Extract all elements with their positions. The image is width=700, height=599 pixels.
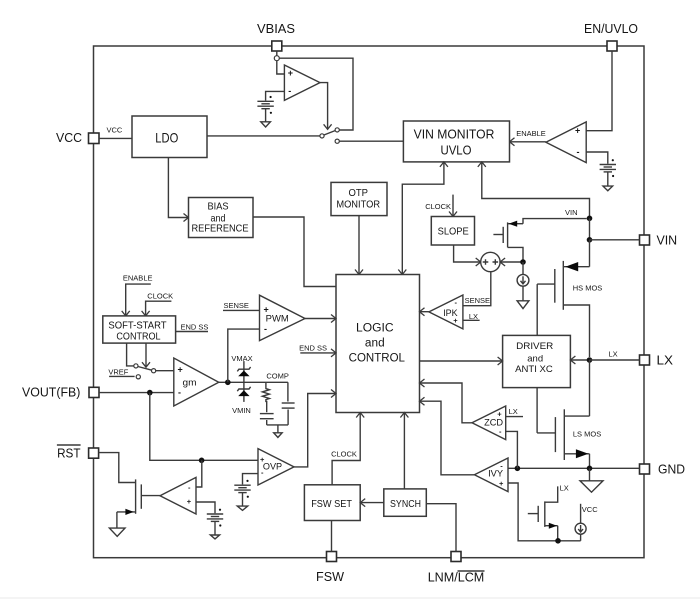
wire SENSE stub to PWM + input: [223, 301, 260, 310]
zener VMAX clamp: [231, 354, 252, 382]
block DRIVER and ANTI XC: [503, 335, 571, 387]
ground below Q5: [109, 528, 125, 536]
wire IPK output to LOGIC: [420, 308, 429, 316]
svg-text:+: +: [453, 316, 458, 325]
svg-text:and: and: [365, 337, 385, 349]
wire LDO to BIAS and REFERENCE: [168, 158, 188, 218]
comparator U3 (reset): [160, 477, 196, 514]
wire OTP MONITOR to LOGIC: [355, 216, 363, 275]
resistor R1 (compensation): [262, 382, 269, 412]
wire CLOCK from FSW SET to LOGIC: [331, 413, 364, 485]
comparator IPK: [429, 295, 463, 329]
svg-text:VREF: VREF: [108, 368, 128, 377]
svg-text:+: +: [178, 364, 183, 374]
svg-text:gm: gm: [183, 378, 197, 389]
wire SYNCH to LOGIC: [400, 413, 408, 489]
svg-text:END SS: END SS: [181, 323, 209, 332]
svg-text:SENSE: SENSE: [224, 301, 249, 310]
block SYNCH: [384, 489, 427, 516]
svg-text:LOGIC: LOGIC: [356, 323, 394, 335]
node gm output dot: [225, 380, 231, 386]
wire switch control arrow: [142, 343, 150, 367]
switch S1 (VBIAS/LDO changeover): [320, 128, 339, 143]
summing node (+ +): [481, 252, 500, 271]
svg-text:MONITOR: MONITOR: [336, 199, 380, 210]
wire DRIVER to LS MOS gate: [536, 388, 538, 433]
comparator IVY: [474, 458, 508, 492]
svg-text:LX: LX: [560, 484, 569, 493]
svg-text:SOFT-START: SOFT-START: [108, 320, 166, 331]
wire current sense into summing node: [500, 258, 523, 266]
ground below compensation: [274, 425, 282, 438]
wire VCC pin to LDO: [99, 137, 132, 139]
wire COMP node to PWM - input: [228, 329, 260, 382]
battery B3 (OVP reference): [234, 480, 250, 498]
wire B2 to ground: [607, 172, 609, 186]
svg-text:+: +: [260, 455, 265, 464]
wire U3 + input to reference: [196, 502, 215, 513]
svg-text:+: +: [499, 479, 504, 488]
wire LX to DRIVER (anti cross conduction sense): [570, 350, 617, 365]
svg-text:OTP: OTP: [348, 188, 368, 199]
svg-text:GND: GND: [658, 463, 685, 477]
wire IVY + input to sense node: [508, 483, 581, 541]
svg-text:ENABLE: ENABLE: [123, 274, 153, 283]
svg-text:+: +: [575, 126, 580, 136]
transistor Q4 (LX sense NMOS): [528, 484, 569, 541]
node FB dot: [147, 390, 153, 396]
wire VREF stub: [108, 368, 134, 377]
pin VOUT(FB): [22, 385, 99, 399]
chip outer border: [94, 46, 645, 558]
battery B1 (U1 reference): [257, 96, 273, 114]
svg-text:BIAS: BIAS: [208, 202, 229, 213]
svg-text:-: -: [288, 86, 291, 96]
capacitor C1 (compensation series): [260, 414, 274, 425]
current source CS2 (VCC bias): [575, 504, 598, 541]
pin FSW: [316, 552, 344, 585]
svg-text:VCC: VCC: [107, 126, 123, 135]
wire RST pin to Q5 drain: [99, 453, 136, 483]
wire END SS stub to LOGIC: [299, 344, 336, 357]
amplifier gm: [174, 358, 219, 406]
pin VBIAS: [257, 22, 295, 51]
svg-text:ENABLE: ENABLE: [516, 129, 546, 138]
battery B4 (U3 reference): [207, 509, 223, 527]
node Q4 source dot: [555, 538, 561, 544]
wire LOGIC to DRIVER: [420, 357, 503, 365]
zener VMIN clamp: [232, 382, 251, 415]
node LX dot: [587, 357, 593, 363]
comparator ZCD: [472, 406, 506, 440]
wire B3 to ground: [242, 493, 244, 507]
node FB sense dot: [199, 458, 205, 464]
svg-text:VIN: VIN: [565, 208, 578, 217]
svg-text:LNM/LCM: LNM/LCM: [428, 570, 485, 584]
svg-text:CLOCK: CLOCK: [147, 292, 173, 301]
wire SYNCH to FSW SET: [360, 499, 384, 507]
wire B4 to ground: [214, 521, 216, 535]
ground below B2: [603, 186, 613, 191]
svg-text:VBIAS: VBIAS: [257, 22, 295, 36]
wire gm output (COMP node): [219, 381, 288, 383]
svg-text:REFERENCE: REFERENCE: [192, 224, 249, 235]
pin EN/UVLO: [584, 22, 638, 51]
svg-text:VCC: VCC: [56, 131, 82, 145]
wire FSW pin to FSW SET: [331, 521, 333, 552]
wire PWM output to LOGIC: [305, 315, 336, 323]
wire ZCD output to LOGIC: [420, 379, 473, 423]
ground below CS1: [517, 301, 529, 309]
svg-text:VMIN: VMIN: [232, 406, 251, 415]
wire LX to LS MOS drain: [589, 360, 591, 416]
op-amp U1 (VBIAS buffer): [284, 65, 320, 100]
svg-text:LX: LX: [469, 312, 478, 321]
wire VIN net vertical: [589, 218, 591, 240]
node VBIAS (open circle): [274, 56, 279, 61]
wire ENABLE from U2 to VIN MONITOR UVLO: [510, 129, 546, 146]
block SOFT-START CONTROL: [103, 316, 176, 343]
wire summing node to IPK - input (SENSE): [463, 272, 491, 306]
wire LNM/LCM pin to SYNCH: [426, 504, 456, 552]
ground below B1: [261, 122, 271, 127]
wire U2 - input to reference: [586, 152, 608, 164]
pin RST (active low): [57, 445, 99, 460]
node VIN net dot lower: [587, 237, 593, 243]
svg-text:SLOPE: SLOPE: [438, 225, 469, 237]
svg-text:HS MOS: HS MOS: [573, 284, 603, 293]
svg-text:CONTROL: CONTROL: [116, 332, 161, 343]
current source CS1: [517, 262, 529, 301]
wire HS MOS gate to DRIVER: [536, 284, 538, 335]
svg-text:ANTI XC: ANTI XC: [515, 363, 553, 374]
svg-text:UVLO: UVLO: [441, 144, 472, 158]
comparator PWM: [260, 295, 306, 340]
svg-text:LX: LX: [509, 407, 518, 416]
svg-text:VCC: VCC: [582, 505, 598, 514]
wire switch to gm + input: [156, 370, 174, 372]
svg-text:COMP: COMP: [266, 372, 289, 381]
block OTP MONITOR: [331, 182, 387, 215]
wire B1 to ground: [265, 109, 267, 122]
wire LDO output to switch common: [207, 135, 320, 137]
wire BIAS to LOGIC: [253, 217, 336, 287]
svg-text:EN/UVLO: EN/UVLO: [584, 22, 638, 36]
svg-text:PWM: PWM: [266, 314, 289, 325]
wire VIN net to HS MOS source: [589, 240, 591, 267]
wire IPK + input stub LX: [463, 312, 480, 321]
transistor LS MOS: [537, 409, 601, 460]
node junction dot (Q1 drain / summing): [520, 259, 526, 265]
block SLOPE: [431, 217, 474, 246]
node GND dot left: [515, 466, 521, 472]
block FSW SET: [304, 485, 360, 521]
svg-text:-: -: [577, 147, 580, 157]
wire EN/UVLO pin to comparator + input: [586, 51, 612, 131]
pin LX: [640, 354, 674, 368]
svg-text:SYNCH: SYNCH: [390, 498, 421, 510]
block VIN MONITOR UVLO: [403, 121, 509, 162]
wire END SS stub: [176, 323, 209, 332]
block BIAS and REFERENCE: [189, 198, 254, 238]
wire IVY output to LOGIC: [420, 397, 475, 475]
wire CLOCK into SLOPE: [425, 195, 457, 217]
svg-text:RST: RST: [57, 446, 81, 460]
battery B2 (U2 reference): [600, 159, 616, 177]
node GND dot right: [587, 466, 593, 472]
svg-text:OVP: OVP: [263, 461, 282, 472]
svg-text:FSW SET: FSW SET: [311, 498, 352, 510]
node VIN net dot upper: [587, 216, 593, 222]
svg-text:+: +: [288, 68, 293, 78]
block LDO: [132, 116, 207, 158]
wire LS MOS source to GND line: [589, 454, 591, 469]
wire ZCD - input to GND node: [506, 431, 518, 468]
wire VBIAS feedback loop to switch throw 1: [279, 58, 353, 130]
transistor Q5 (RST pull-down NMOS): [117, 479, 141, 528]
wire to LX pin: [590, 359, 640, 361]
wire ZCD + input stub LX: [506, 407, 523, 417]
wire CLOCK into SOFT-START CONTROL: [142, 292, 174, 316]
wire VOUT(FB) to gm - input: [99, 392, 174, 394]
pin GND: [640, 463, 686, 477]
svg-text:VMAX: VMAX: [231, 354, 252, 363]
transistor Q1 (sense PMOS): [493, 219, 586, 262]
svg-text:+: +: [497, 410, 502, 419]
transistor HS MOS: [537, 261, 602, 357]
svg-text:CLOCK: CLOCK: [425, 202, 451, 211]
wire SLOPE to summing node: [454, 245, 481, 266]
wire FB node down to OVP + and RST comparator: [150, 393, 258, 461]
wire ENABLE into SOFT-START CONTROL: [122, 274, 153, 316]
capacitor C2 (compensation parallel): [282, 382, 295, 425]
svg-text:LX: LX: [609, 350, 618, 359]
svg-text:CONTROL: CONTROL: [349, 353, 406, 365]
wire soft-start ramp to switch: [127, 343, 134, 366]
svg-text:END SS: END SS: [299, 344, 327, 353]
pin VCC: [56, 131, 99, 145]
svg-text:SENSE: SENSE: [465, 296, 490, 305]
wire UVLO to LOGIC (both arrows): [398, 162, 448, 275]
ground below B4: [210, 535, 219, 539]
svg-text:LX: LX: [657, 354, 674, 368]
svg-text:FSW: FSW: [316, 570, 344, 584]
pin VIN: [640, 234, 678, 248]
svg-text:VIN: VIN: [656, 234, 677, 248]
wire FB sense to RST comparator - input: [196, 460, 202, 487]
svg-text:VIN MONITOR: VIN MONITOR: [414, 128, 495, 142]
svg-text:VOUT(FB): VOUT(FB): [22, 385, 80, 399]
comparator OVP: [258, 449, 294, 485]
wire VBIAS pin to node: [276, 51, 278, 56]
wire U1 - input to reference: [266, 91, 285, 100]
switch S2 (VREF / soft-start select): [134, 364, 156, 379]
svg-text:-: -: [178, 387, 181, 397]
wire GND line to GND pin: [508, 467, 640, 469]
svg-text:-: -: [264, 324, 267, 334]
wire VBIAS node to op-amp + input: [277, 61, 285, 74]
wire compensation bottom rail: [267, 424, 288, 426]
wire U3 output to Q5 gate: [141, 495, 160, 497]
comparator U2 (enable): [546, 122, 586, 163]
svg-text:+: +: [264, 304, 269, 314]
svg-text:+: +: [187, 497, 192, 506]
wire OVP output to LOGIC: [294, 390, 336, 467]
pin LNM/LCM (LCM active low): [428, 552, 485, 585]
svg-text:DRIVER: DRIVER: [516, 340, 553, 351]
wire to VIN pin: [590, 239, 640, 241]
wire OVP - input to reference: [243, 474, 259, 485]
svg-text:CLOCK: CLOCK: [331, 450, 357, 459]
ground symbol below GND line: [580, 468, 603, 492]
block LOGIC and CONTROL: [336, 275, 420, 413]
wire switch throw 2 to VIN MONITOR UVLO: [339, 140, 403, 142]
svg-text:and: and: [527, 352, 543, 363]
wire U1 output to switch control arrow: [320, 83, 328, 129]
svg-text:LS MOS: LS MOS: [573, 430, 601, 439]
wire VIN sense to UVLO: [478, 162, 590, 218]
ground below B3: [237, 506, 247, 510]
svg-text:LDO: LDO: [155, 129, 178, 145]
